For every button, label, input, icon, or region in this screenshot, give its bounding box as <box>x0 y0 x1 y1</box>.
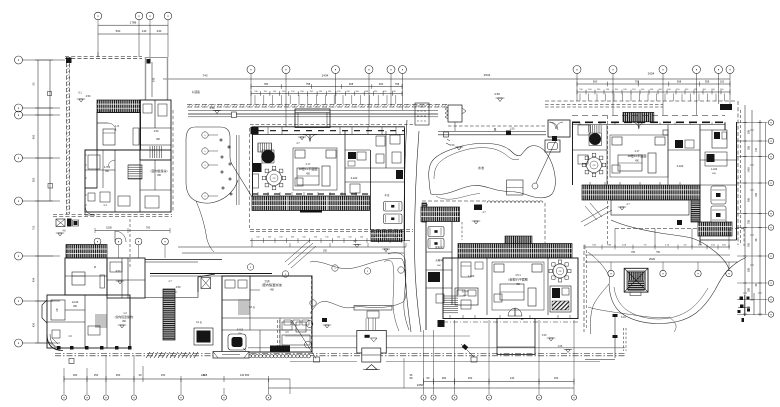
svg-text:C1 仓: C1 仓 <box>196 320 203 324</box>
svg-text:650: 650 <box>245 373 250 377</box>
pool building fixtures right <box>282 322 292 330</box>
building B4 dining table round <box>267 171 282 186</box>
svg-text:500: 500 <box>116 29 121 33</box>
building B5 round table <box>553 264 567 278</box>
white background done; top-left axis group circles <box>94 12 102 20</box>
svg-text:150: 150 <box>720 79 725 83</box>
svg-text:140: 140 <box>142 29 147 33</box>
pond B left tail curves <box>590 284 609 334</box>
garden equipment dark blob <box>194 328 213 345</box>
svg-text:2434: 2434 <box>322 74 329 78</box>
svg-text:120: 120 <box>201 373 206 377</box>
building B6 outer walls <box>572 122 574 185</box>
svg-text:1.50: 1.50 <box>510 128 515 131</box>
building B5 small bathroom <box>455 288 478 305</box>
dashed garage right wall B5 <box>461 222 463 240</box>
left garden plant crosses <box>219 138 223 142</box>
pavilion step <box>630 292 641 296</box>
svg-text:140: 140 <box>240 373 245 377</box>
bottom axis circles <box>61 395 66 400</box>
pond B inner line <box>614 287 708 319</box>
svg-text:2534: 2534 <box>484 73 491 77</box>
vertical drop lines below top-left group to fence <box>97 52 99 57</box>
building B1 interior walls <box>114 150 116 212</box>
svg-text:900: 900 <box>442 376 447 380</box>
garden stair strip dark <box>163 289 175 340</box>
svg-text:3#楼1F平面图: 3#楼1F平面图 <box>299 166 318 171</box>
building B6 top wall <box>572 115 725 117</box>
left dimension chain <box>37 60 39 343</box>
boundary dashed right vertical <box>737 101 739 245</box>
svg-text:230: 230 <box>157 29 162 33</box>
top dimension drop ticks to fence left <box>254 95 256 104</box>
svg-text:780: 780 <box>748 242 751 247</box>
left axis circles <box>15 56 23 64</box>
left garden loop path <box>186 127 238 203</box>
svg-text:708: 708 <box>635 79 640 83</box>
vertical dimension pair lines below top-right building <box>614 229 616 248</box>
building B6 extra interior <box>573 149 608 151</box>
svg-text:150: 150 <box>468 376 473 380</box>
svg-text:908: 908 <box>349 82 354 86</box>
building B6 right wing walls <box>736 122 738 240</box>
building B5 bathroom dark fixtures <box>550 286 571 312</box>
right-middle dimension rows <box>585 246 730 248</box>
building B2 upper dimension <box>95 230 170 232</box>
bottom dimension line middle <box>269 387 575 389</box>
pool building porch canopy <box>198 274 215 292</box>
building B2 outer walls <box>65 258 107 295</box>
building B6 terrace below <box>611 200 689 215</box>
svg-text:6.01: 6.01 <box>621 316 626 319</box>
svg-text:4.50: 4.50 <box>86 95 91 98</box>
svg-text:434: 434 <box>32 277 36 282</box>
building B1 furniture bed <box>103 129 115 145</box>
building B4 window ticks top wall <box>267 127 269 135</box>
building B6 bottom roof hatch <box>582 185 700 200</box>
building B2 bottom wall column marks <box>57 346 61 350</box>
building B5 window ticks bottom wall <box>449 315 451 319</box>
building B6 right wing cars <box>711 186 726 204</box>
svg-text:908: 908 <box>748 197 751 202</box>
building B4 cabinets dark <box>253 163 262 172</box>
building B5 main roof hatch <box>458 244 572 259</box>
gatehouse outer box <box>357 331 387 354</box>
building B6 right wing bathroom <box>712 130 727 148</box>
svg-text:1788: 1788 <box>130 20 137 24</box>
building B1 driveway walls <box>145 57 147 100</box>
pond A stepping rectangle <box>507 180 524 195</box>
building B2 extra fixtures <box>110 262 122 272</box>
pavilion structure with jagged edge top <box>448 105 462 122</box>
svg-text:4.50: 4.50 <box>209 106 215 110</box>
center horizontal road <box>178 246 406 248</box>
building B6 spiral kitchen dark <box>589 133 601 145</box>
svg-text:140: 140 <box>510 376 515 380</box>
building B5 main walls <box>443 258 578 319</box>
boundary fence top horizontal with ticks <box>187 104 448 106</box>
svg-text:3#楼1F平面图: 3#楼1F平面图 <box>628 153 647 158</box>
svg-text:配电间: 配电间 <box>435 245 443 249</box>
building B6 entrance doors <box>632 122 639 129</box>
svg-text:(室内健身房): (室内健身房) <box>151 168 168 173</box>
dashed vertical pool-building right boundary <box>277 320 279 346</box>
svg-text:150: 150 <box>161 373 166 377</box>
pond A water inlet marks <box>446 139 450 145</box>
building B6 living room furniture <box>610 135 668 177</box>
building B1 outer walls <box>97 113 141 151</box>
boundary dashed inner right of top-right building <box>607 116 609 245</box>
bottom road lines <box>285 335 357 337</box>
top-left dimension lines <box>98 24 168 26</box>
svg-text:仓: 仓 <box>56 308 59 312</box>
walkway diagonal crossing left road <box>285 240 316 268</box>
right dimension chains <box>744 105 746 316</box>
svg-text:1.50: 1.50 <box>450 144 455 147</box>
svg-text:1460: 1460 <box>748 167 751 173</box>
svg-text:1 #: 1 # <box>115 124 119 128</box>
dash-dot line under B5 bottom wall <box>443 321 578 323</box>
building B6 right fixtures <box>675 140 683 148</box>
building B4 top porch <box>295 109 330 128</box>
svg-text:(室内恒温泳池): (室内恒温泳池) <box>262 282 283 287</box>
boundary dashed right-middle horizontal <box>615 228 744 230</box>
building B4 top wall <box>252 126 405 128</box>
building B2 stairs <box>95 314 107 316</box>
walkway diagonal top-right with X <box>581 206 612 226</box>
building B5 center gate hatch <box>505 236 532 244</box>
gatehouse triangle below <box>366 365 377 370</box>
center dimension row below B4 <box>250 240 410 242</box>
svg-text:358: 358 <box>748 287 751 292</box>
building B5 garage cars <box>428 227 444 237</box>
svg-text:450: 450 <box>379 82 384 86</box>
building B5 entrance double door <box>508 308 515 316</box>
gatehouse road verticals <box>365 318 367 331</box>
top secondary dimension lines left <box>251 86 403 88</box>
svg-text:300: 300 <box>73 373 78 377</box>
svg-text:M: M <box>94 266 96 269</box>
vertical drops center dim to road <box>251 243 253 247</box>
svg-text:505: 505 <box>32 177 36 182</box>
S path near chain start <box>243 348 246 355</box>
building B6 right wing roof hatch <box>698 222 732 236</box>
building B4 stair hatch <box>257 143 259 152</box>
svg-text:1.50: 1.50 <box>542 334 547 337</box>
svg-text:1650: 1650 <box>417 383 424 387</box>
pool building interior <box>222 276 250 300</box>
svg-text:758: 758 <box>748 219 751 224</box>
dashed vertical right end of dashed rect <box>743 229 745 247</box>
dashed boundary below road to B6 <box>448 125 545 127</box>
svg-text:1-1#2: 1-1#2 <box>468 274 475 278</box>
leader circle on road <box>398 267 404 273</box>
pond A center amoeba <box>429 143 556 197</box>
svg-text:4.50: 4.50 <box>116 270 121 273</box>
svg-text:1x120: 1x120 <box>72 301 79 304</box>
svg-text:2.17: 2.17 <box>306 163 311 166</box>
top main axis circles <box>247 66 255 74</box>
svg-text:4.50: 4.50 <box>154 130 159 133</box>
pond B right kidney shape <box>611 220 729 269</box>
building B4 spiral kitchen dark <box>262 150 275 163</box>
svg-text:1.06: 1.06 <box>558 345 563 348</box>
building B4 right section extra walls <box>385 131 387 168</box>
svg-text:车库: 车库 <box>384 193 390 197</box>
water meter square right with diagonal leader <box>471 357 477 362</box>
center garden leader circles <box>247 264 253 270</box>
fence corner dark square top-left <box>66 58 72 64</box>
chain of circles hedge along bottom <box>248 354 252 358</box>
boundary dashed mid-left horizontal <box>53 214 172 216</box>
bottom dimension line right <box>424 381 575 383</box>
building B1 door arcs <box>108 123 116 131</box>
building B2 bottom small square <box>69 359 74 364</box>
building B4 dashed line above top wall <box>250 124 415 126</box>
bottom dimension line left <box>64 378 269 380</box>
building B6 dining table round <box>587 158 602 173</box>
building B4 entrance doors <box>303 135 310 142</box>
svg-text:4-7F2: 4-7F2 <box>104 166 111 169</box>
gatehouse dark mark and triangle <box>365 335 370 338</box>
svg-text:路: 路 <box>494 128 497 132</box>
building B1 roof hatch <box>97 100 141 113</box>
building B2 utility boxes above roof <box>56 219 65 227</box>
axis drop lines from top circles <box>250 73 252 104</box>
svg-text:165: 165 <box>755 192 758 197</box>
pavilion square pool <box>624 268 648 292</box>
building B4 living room rug and sofas <box>293 148 337 190</box>
svg-text:700: 700 <box>146 226 151 230</box>
svg-text:145: 145 <box>152 77 156 82</box>
dashed vertical boundary x130 upper <box>129 219 131 268</box>
svg-text:358: 358 <box>705 79 710 83</box>
extended bottom-left dimension texts <box>269 378 291 380</box>
svg-text:M: M <box>426 205 428 207</box>
left garden boundary dashed verticals <box>172 110 174 212</box>
building B6 left porch <box>548 120 570 137</box>
left garden plant vertical lines <box>236 135 238 205</box>
top main dimension line <box>163 78 730 80</box>
svg-text:水池: 水池 <box>478 165 484 170</box>
building B6 top roof hatch <box>623 112 654 121</box>
boundary dashed around building B5 top <box>422 200 486 202</box>
building B4 window ticks bottom <box>252 193 369 195</box>
svg-text:2654: 2654 <box>648 72 655 76</box>
right column extra vertical line <box>765 123 767 315</box>
svg-text:2520: 2520 <box>649 257 656 261</box>
svg-text:508: 508 <box>677 79 682 83</box>
svg-text:4.50: 4.50 <box>494 92 500 96</box>
boundary dashed B5 right verticals <box>544 203 546 243</box>
pond B bottom-left curves near boundary <box>588 307 670 318</box>
pond A inner shore line <box>434 148 519 179</box>
svg-text:756: 756 <box>631 251 636 254</box>
svg-text:758: 758 <box>395 82 400 86</box>
building B5 stairs <box>444 295 459 297</box>
connector corridor walls B2-B3 extra <box>145 261 198 263</box>
building B6 stair hatch <box>588 125 590 133</box>
entrance gate doors top-right area <box>549 122 563 129</box>
svg-text:3-1#2: 3-1#2 <box>677 164 684 168</box>
svg-text:C3 仓: C3 仓 <box>249 305 256 309</box>
building B2 left bay window <box>42 300 47 323</box>
building B1 stairs right wing <box>149 146 151 158</box>
boundary dashed top-right <box>545 100 737 102</box>
curved road down the middle <box>404 120 411 332</box>
left garden plant leader circles <box>202 132 208 138</box>
svg-text:710: 710 <box>32 225 36 230</box>
svg-text:450: 450 <box>116 373 121 377</box>
svg-text:(会客厅)平面图: (会客厅)平面图 <box>508 277 527 282</box>
svg-text:750: 750 <box>656 251 661 254</box>
bottom-right small detail cluster <box>744 295 746 316</box>
pool building garden wall top <box>150 273 272 275</box>
gatehouse inner box <box>362 348 381 362</box>
svg-text:780: 780 <box>264 82 269 86</box>
svg-text:水箱间: 水箱间 <box>435 258 443 262</box>
svg-text:3-1#2: 3-1#2 <box>351 176 358 180</box>
svg-text:村道路: 村道路 <box>192 90 200 94</box>
svg-text:250: 250 <box>323 250 328 253</box>
dark rect on dashed boundary above B5 <box>474 205 482 211</box>
svg-text:150: 150 <box>554 376 559 380</box>
building B1 window ticks <box>99 111 101 113</box>
connector walls B2 to B3 <box>145 259 222 261</box>
svg-text:2.17: 2.17 <box>635 150 640 153</box>
boundary corner bottom-right of site <box>614 315 616 358</box>
building B1 extra interior walls <box>102 150 104 188</box>
building B1 bottom-left corner arc <box>85 205 95 215</box>
building B4 wing roof hatch <box>371 230 402 242</box>
level triangle near B4 wing bottom <box>384 249 388 252</box>
building B4 right wing walls <box>404 128 406 242</box>
building B1 small fixtures <box>88 155 100 169</box>
central lawn walkway bench <box>354 306 392 311</box>
building B6 window ticks <box>579 122 581 124</box>
pool building bottom entrance porch <box>213 352 249 359</box>
boundary dashed top-left <box>65 56 142 58</box>
building B4 wing garage cars <box>384 202 403 212</box>
building B2 roof hatch <box>66 245 107 259</box>
center plot dashed boundary below B4 <box>250 229 413 231</box>
svg-text:1500: 1500 <box>106 226 112 230</box>
building B4 left wall <box>252 127 254 196</box>
svg-text:(室内恒温泳池): (室内恒温泳池) <box>115 315 134 319</box>
building B4 bottom roof hatch <box>252 196 370 211</box>
building B4 right rooms fixtures <box>348 152 356 159</box>
svg-text:145: 145 <box>755 147 758 152</box>
svg-text:358: 358 <box>748 145 751 150</box>
svg-text:758: 758 <box>306 82 311 86</box>
building B5 terrace below entrance <box>497 319 535 355</box>
building B3 extra interior <box>222 317 312 319</box>
building B6 small squares on path <box>663 130 668 135</box>
building B2 interior walls <box>65 275 107 277</box>
building B5 garage roof hatch <box>421 207 460 222</box>
building B2 axis circles <box>94 238 101 245</box>
leader diagonal near pond <box>536 140 556 183</box>
building B6 interior walls <box>606 125 608 186</box>
pool building right wall dashed glass <box>311 276 313 352</box>
building B1 stairs <box>128 164 142 166</box>
bottom boundary hatched band <box>146 352 150 358</box>
building B2 rounded bottom-left corner <box>47 334 63 351</box>
lawn strip left of middle road <box>388 253 409 330</box>
central lawn leader circle <box>310 300 316 306</box>
building B2 furniture <box>72 272 85 285</box>
top-left axis drop lines <box>97 25 99 57</box>
building B5 living room furniture <box>492 262 544 310</box>
top dimension drop ticks to fence right <box>579 94 581 102</box>
door arcs near B2 top right <box>115 231 126 242</box>
small dashed structure left of pavilion <box>415 103 429 125</box>
central lawn blob <box>310 258 406 313</box>
extra curvy garden line bottom left of pond B <box>670 318 676 332</box>
right axis circles <box>768 120 773 125</box>
pool building main hall walls <box>222 276 312 352</box>
bottom axis drop lines <box>63 368 65 394</box>
right dimension column extra ticks <box>743 122 747 124</box>
top secondary dimension lines right <box>577 83 730 85</box>
building B5 garage and utility walls <box>425 222 427 331</box>
svg-text:4.50: 4.50 <box>176 286 181 289</box>
bottom site boundary dash-dot double <box>55 353 625 355</box>
pool building bathtub <box>228 334 246 350</box>
building B4 dark band right of wing <box>422 203 427 222</box>
svg-text:508: 508 <box>748 267 751 272</box>
svg-text:1-1#2: 1-1#2 <box>711 168 718 171</box>
road to top-right building <box>438 131 546 133</box>
garden wall path below top fence <box>188 110 438 112</box>
building B5 utility fixtures dark <box>428 272 440 282</box>
svg-text:5-013: 5-013 <box>237 329 244 332</box>
svg-text:430: 430 <box>32 322 36 327</box>
right-middle axis circles <box>608 270 614 276</box>
svg-text:743: 743 <box>202 74 207 78</box>
building B6 vertical roof connector band <box>691 200 700 222</box>
plant circles with diagonal leaders near pool building <box>292 320 317 359</box>
svg-text:250: 250 <box>94 373 99 377</box>
gate square structure right of pond <box>545 140 560 152</box>
shrub scallop border B5 <box>487 201 543 203</box>
building B6 top-right corner dark mark <box>720 104 732 110</box>
boundary fence left vertical with hatch ticks <box>66 57 68 214</box>
svg-text:500: 500 <box>593 79 598 83</box>
svg-text:450: 450 <box>32 134 36 139</box>
